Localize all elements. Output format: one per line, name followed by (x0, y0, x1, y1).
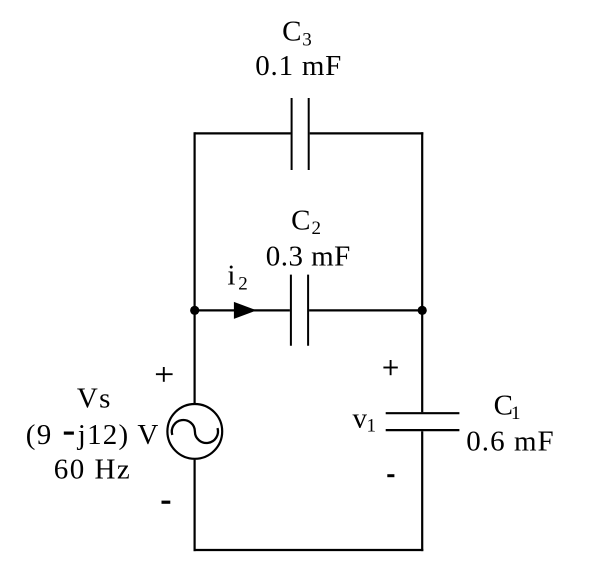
label v1 (353, 402, 377, 436)
svg-text:i: i (227, 260, 235, 292)
capacitor C1 (386, 413, 460, 430)
capacitor C2 (291, 275, 308, 346)
wire middle right segment (309, 309, 422, 311)
svg-text:2: 2 (312, 218, 322, 239)
label C1 (494, 390, 521, 424)
svg-text:0.3 mF: 0.3 mF (266, 240, 351, 272)
source Vs (167, 404, 222, 459)
wire right side lower (421, 431, 423, 551)
minus sign in (9 - j12) (64, 432, 74, 435)
svg-text:2: 2 (238, 274, 248, 295)
svg-text:3: 3 (302, 29, 312, 50)
label C3 (282, 16, 312, 51)
label i2 (227, 260, 247, 295)
current arrow i2 (234, 302, 257, 319)
wire right side upper (421, 132, 423, 412)
minus sign (v1) (387, 474, 394, 477)
wire top side right segment (310, 132, 424, 134)
svg-text:(9 j12) V: (9 j12) V (26, 419, 159, 451)
plus sign (v1) (383, 360, 397, 375)
node B (right junction) (418, 306, 427, 315)
svg-text:0.6 mF: 0.6 mF (466, 425, 554, 457)
wire bottom side (194, 549, 424, 551)
wire left side lower (194, 460, 196, 551)
svg-text:60 Hz: 60 Hz (54, 454, 130, 486)
label C2 (291, 205, 321, 239)
svg-text:Vs: Vs (77, 382, 111, 414)
node A (left junction) (190, 306, 199, 315)
svg-text:1: 1 (511, 403, 521, 424)
capacitor C3 (292, 98, 309, 170)
svg-text:C: C (291, 205, 310, 237)
wire left side upper (194, 132, 196, 403)
minus sign (source) (162, 501, 171, 504)
svg-text:C: C (282, 16, 301, 48)
svg-text:v: v (353, 402, 368, 434)
svg-text:1: 1 (367, 416, 377, 437)
wire middle left segment (195, 309, 290, 311)
wire top side left segment (195, 132, 291, 134)
svg-text:0.1 mF: 0.1 mF (255, 50, 341, 82)
plus sign (source) (156, 367, 173, 382)
